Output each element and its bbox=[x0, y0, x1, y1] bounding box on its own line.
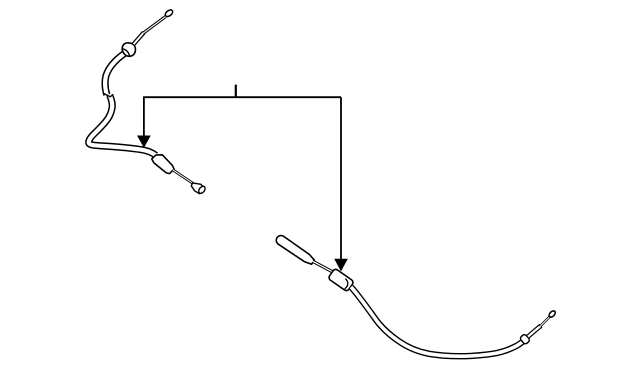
wire: thin rod to ferrule bbox=[313, 261, 333, 272]
ferrule bead B1 bbox=[122, 43, 135, 57]
wire: conduit upper segment bbox=[105, 52, 127, 95]
ball end E4 bbox=[548, 310, 557, 318]
lower ferrule F1 (cylinder) bbox=[152, 155, 174, 174]
capsule end E3 bbox=[276, 236, 314, 265]
wire: thin rod to top ball bbox=[143, 16, 166, 33]
conduit joint collar bbox=[103, 93, 113, 97]
wire: horizontal leader bbox=[143, 96, 341, 98]
tapered tube at right end bbox=[528, 326, 541, 337]
wire: conduit lower segment with hairpin bend bbox=[89, 95, 156, 155]
arrowhead right bbox=[335, 259, 347, 270]
ferrule F2 (cylinder) bbox=[328, 268, 354, 292]
arrowhead left bbox=[138, 136, 150, 147]
ring ferrule F3 bbox=[519, 334, 530, 345]
wire: thin rod to right ball bbox=[540, 317, 550, 327]
callout leader for part 1 bbox=[138, 85, 347, 271]
tapered tube above bead bbox=[134, 32, 144, 44]
label 1 tick bbox=[235, 85, 237, 98]
wire: rod from ferrule to end cap bbox=[173, 170, 194, 184]
wire: left vertical leader bbox=[143, 97, 145, 136]
cable assembly 1 (upper left) bbox=[89, 9, 207, 195]
wire: main conduit bbox=[351, 287, 526, 356]
wire: right vertical leader bbox=[340, 97, 342, 259]
cable assembly 2 (lower right) bbox=[276, 236, 556, 357]
ball end E1 bbox=[164, 9, 174, 18]
end cap E2 with socket opening bbox=[191, 183, 206, 195]
